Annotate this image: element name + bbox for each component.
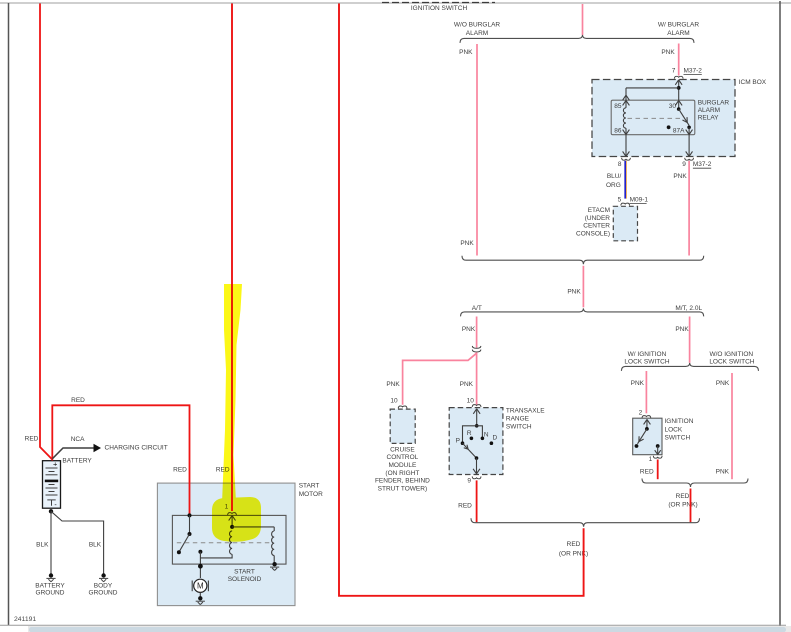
svg-text:W/ IGNITION: W/ IGNITION [628, 351, 667, 358]
svg-text:NCA: NCA [71, 436, 85, 443]
svg-text:PNK: PNK [459, 49, 473, 56]
svg-text:BLK: BLK [89, 541, 102, 548]
svg-text:MOTOR: MOTOR [299, 491, 323, 498]
svg-text:PNK: PNK [716, 469, 730, 476]
svg-text:BLK: BLK [36, 541, 49, 548]
svg-text:R: R [467, 430, 472, 437]
svg-text:RANGE: RANGE [506, 416, 530, 423]
svg-text:START: START [234, 568, 255, 575]
svg-text:PNK: PNK [675, 326, 689, 333]
svg-text:BURGLAR: BURGLAR [698, 100, 730, 107]
svg-text:BODY: BODY [94, 582, 113, 589]
svg-text:CONSOLE): CONSOLE) [576, 230, 610, 237]
svg-text:PNK: PNK [716, 380, 730, 387]
svg-text:RED: RED [567, 541, 581, 548]
svg-text:1: 1 [649, 456, 653, 463]
svg-text:85: 85 [614, 103, 622, 110]
svg-text:8: 8 [618, 161, 622, 168]
svg-text:7: 7 [672, 68, 676, 75]
svg-text:RED: RED [676, 493, 690, 500]
svg-text:87A: 87A [673, 128, 685, 135]
svg-text:W/O BURGLAR: W/O BURGLAR [454, 22, 501, 29]
svg-text:86: 86 [614, 128, 622, 135]
svg-text:ICM BOX: ICM BOX [739, 79, 767, 86]
svg-text:ORG: ORG [606, 182, 621, 189]
svg-text:RED: RED [25, 435, 39, 442]
svg-text:241191: 241191 [14, 616, 36, 623]
svg-text:LOCK: LOCK [665, 427, 683, 434]
svg-text:RELAY: RELAY [698, 115, 719, 122]
svg-text:30: 30 [669, 103, 677, 110]
svg-text:START: START [299, 483, 320, 490]
svg-text:SOLENOID: SOLENOID [228, 576, 262, 583]
svg-text:PNK: PNK [462, 326, 476, 333]
svg-text:M/T, 2.0L: M/T, 2.0L [675, 305, 702, 312]
svg-text:MODULE: MODULE [388, 462, 416, 469]
svg-text:RED: RED [458, 502, 472, 509]
svg-text:M: M [197, 582, 204, 591]
svg-text:ALARM: ALARM [466, 30, 488, 37]
svg-text:RED: RED [71, 397, 85, 404]
svg-text:PNK: PNK [631, 380, 645, 387]
svg-text:CRUISE: CRUISE [390, 446, 415, 453]
svg-text:(ON RIGHT: (ON RIGHT [385, 470, 419, 477]
svg-text:PNK: PNK [567, 288, 581, 295]
svg-text:10: 10 [467, 398, 475, 405]
svg-text:PNK: PNK [460, 381, 474, 388]
svg-text:9: 9 [467, 478, 471, 485]
svg-text:IGNITION SWITCH: IGNITION SWITCH [411, 5, 468, 12]
svg-text:LOCK SWITCH: LOCK SWITCH [709, 359, 754, 366]
svg-text:ALARM: ALARM [667, 30, 689, 37]
svg-text:(OR PNK): (OR PNK) [668, 502, 697, 509]
svg-text:(UNDER: (UNDER [585, 215, 611, 222]
svg-text:2: 2 [639, 409, 643, 416]
svg-text:PNK: PNK [673, 173, 687, 180]
svg-text:9: 9 [682, 161, 686, 168]
svg-text:GROUND: GROUND [89, 590, 118, 597]
svg-text:ETACM: ETACM [588, 207, 610, 214]
svg-text:CHARGING CIRCUIT: CHARGING CIRCUIT [105, 445, 168, 452]
svg-text:A/T: A/T [472, 305, 482, 312]
svg-text:STRUT TOWER): STRUT TOWER) [378, 486, 427, 493]
svg-text:10: 10 [390, 398, 398, 405]
svg-text:P: P [456, 437, 460, 444]
svg-text:ALARM: ALARM [698, 107, 720, 114]
svg-text:M37-2: M37-2 [684, 68, 703, 75]
svg-text:CENTER: CENTER [583, 223, 610, 230]
svg-text:FENDER, BEHIND: FENDER, BEHIND [375, 478, 430, 485]
svg-text:PNK: PNK [386, 381, 400, 388]
svg-text:BLU/: BLU/ [607, 173, 622, 180]
svg-text:W/ BURGLAR: W/ BURGLAR [658, 22, 699, 29]
svg-text:D: D [493, 435, 498, 442]
svg-text:TRANSAXLE: TRANSAXLE [506, 408, 545, 415]
svg-text:PNK: PNK [460, 240, 474, 247]
svg-text:+: + [53, 460, 58, 469]
svg-text:RED: RED [173, 467, 187, 474]
svg-text:N: N [484, 431, 489, 438]
svg-text:SWITCH: SWITCH [506, 423, 532, 430]
svg-text:LOCK SWITCH: LOCK SWITCH [624, 359, 669, 366]
svg-text:SWITCH: SWITCH [665, 435, 691, 442]
svg-text:PNK: PNK [661, 49, 675, 56]
svg-text:BATTERY: BATTERY [62, 458, 92, 465]
svg-text:M09-1: M09-1 [630, 196, 649, 203]
svg-text:RED: RED [640, 469, 654, 476]
svg-text:5: 5 [618, 196, 622, 203]
svg-text:BATTERY: BATTERY [35, 582, 65, 589]
svg-text:W/O IGNITION: W/O IGNITION [709, 351, 753, 358]
svg-text:CONTROL: CONTROL [387, 454, 419, 461]
svg-text:M37-2: M37-2 [693, 161, 712, 168]
svg-text:IGNITION: IGNITION [665, 418, 694, 425]
svg-text:GROUND: GROUND [36, 590, 65, 597]
